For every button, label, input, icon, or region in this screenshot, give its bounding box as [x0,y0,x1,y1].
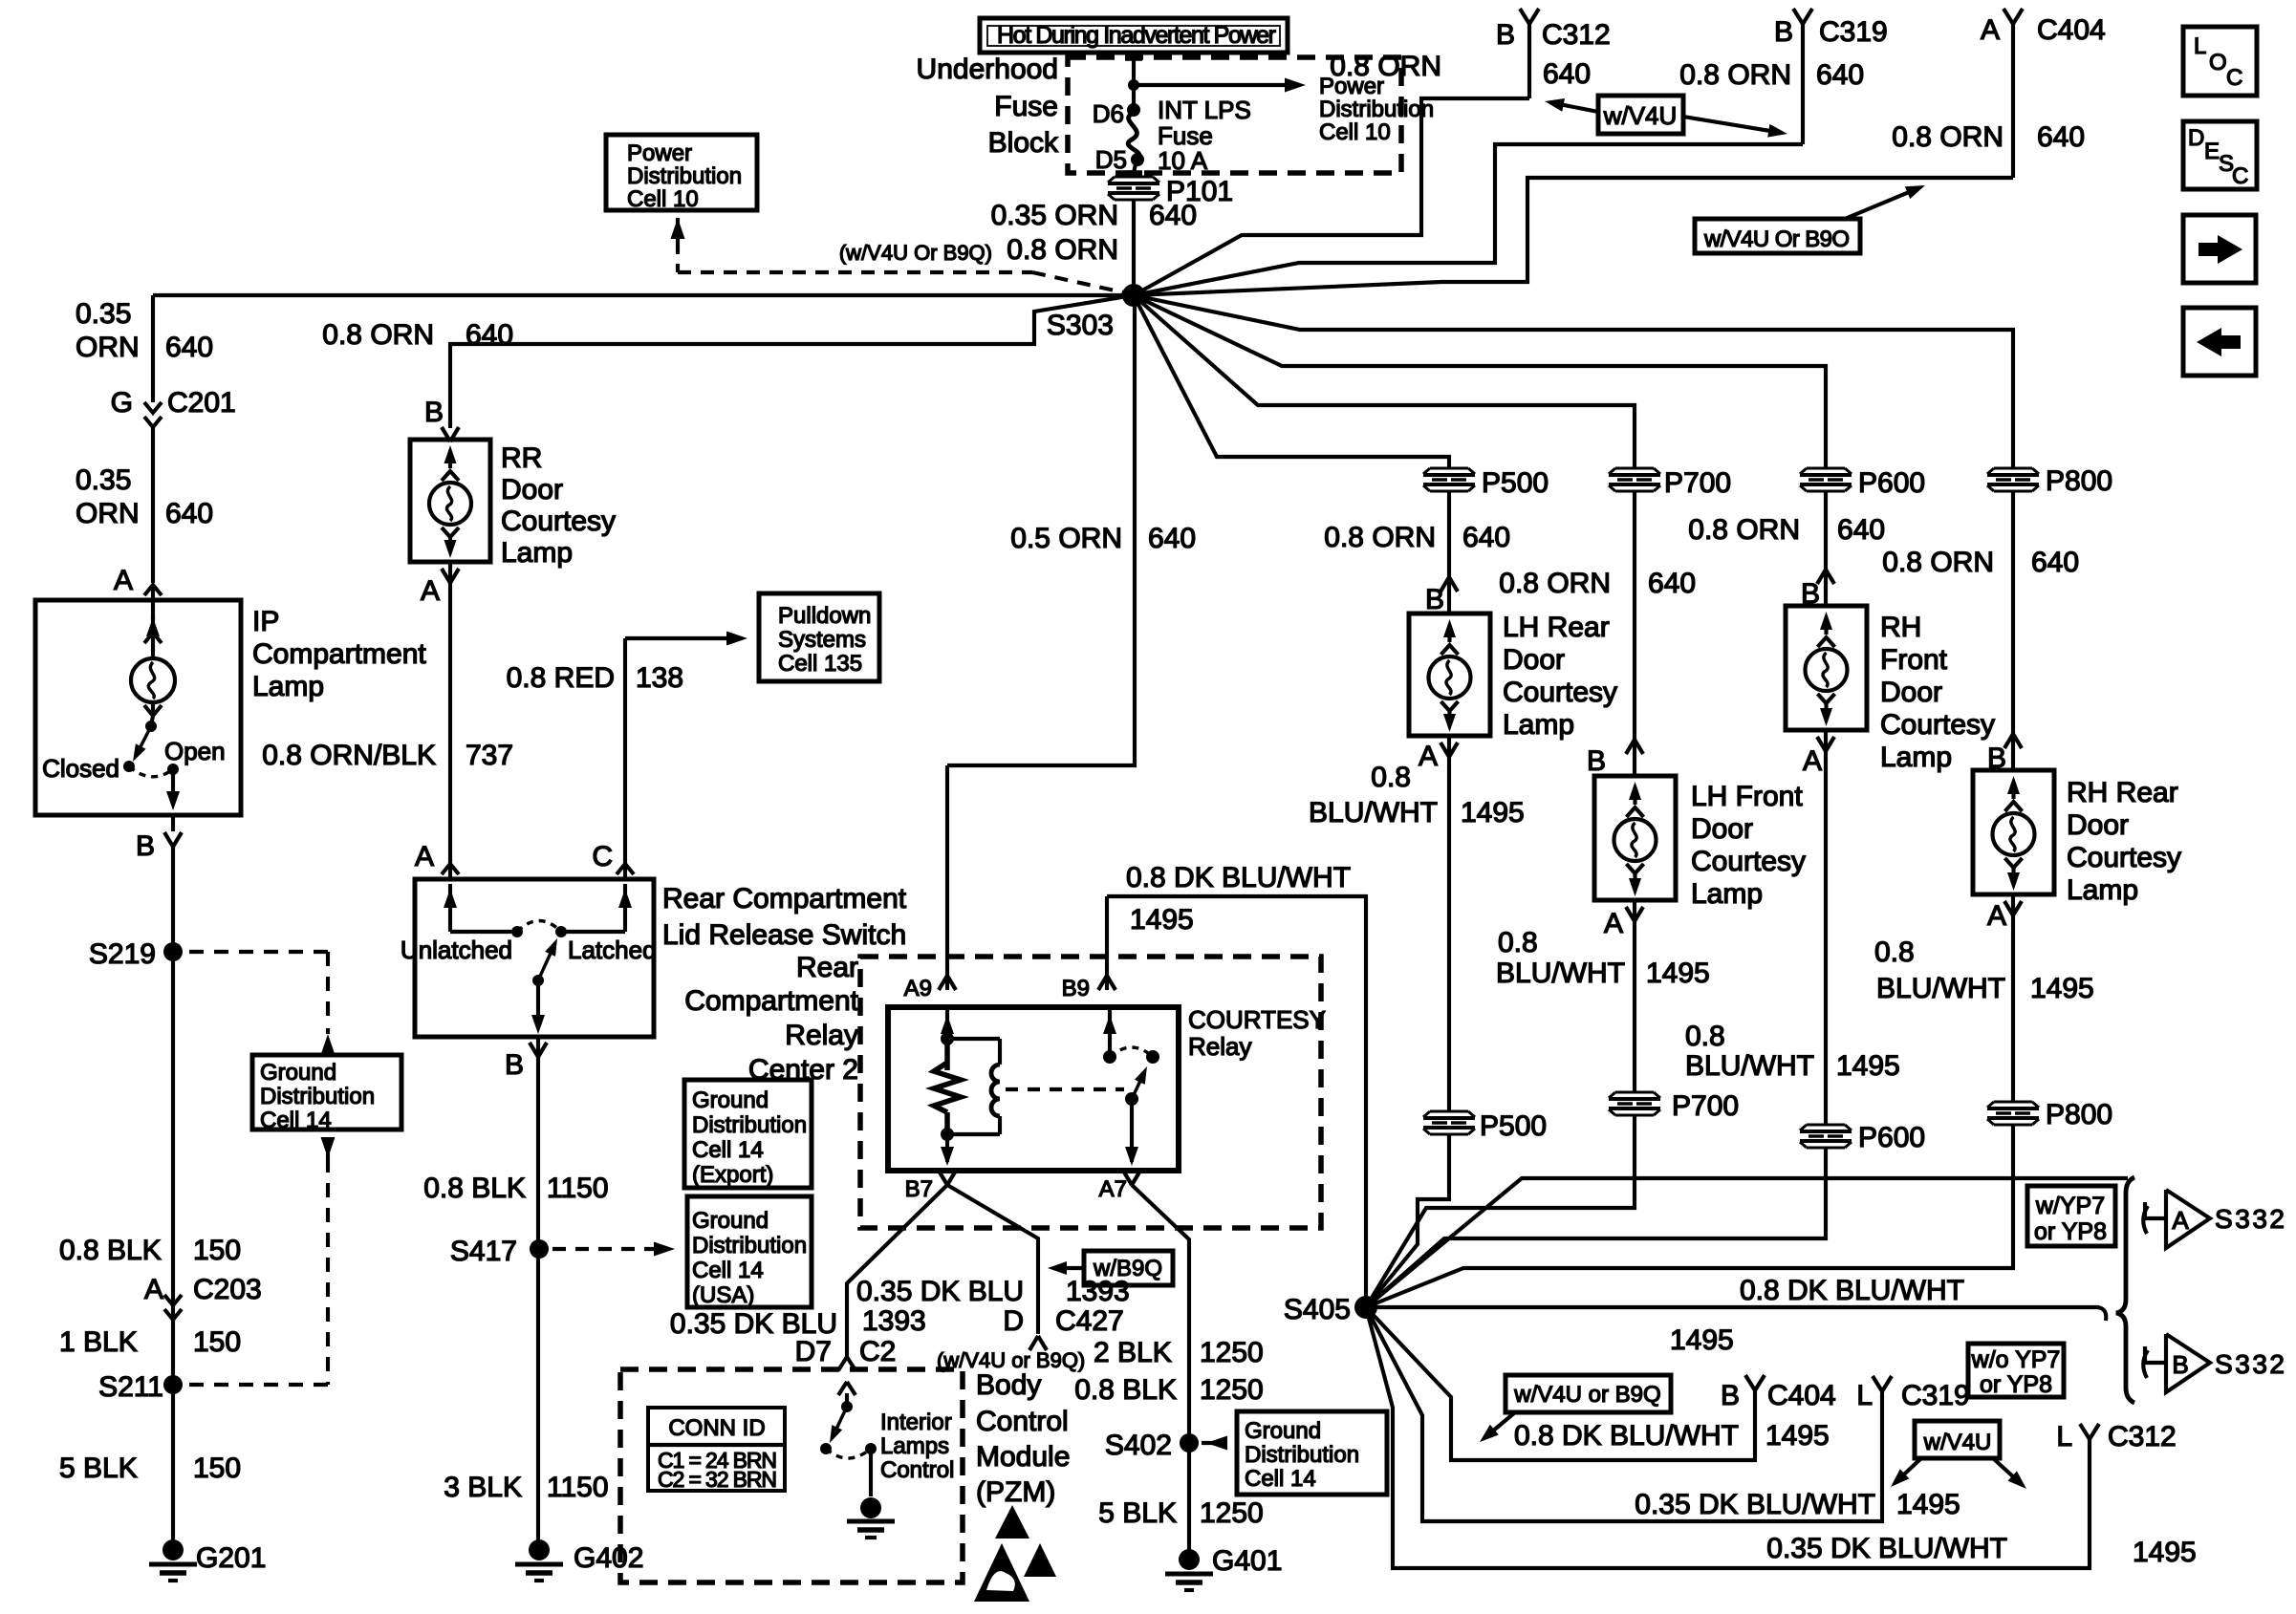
svg-text:G402: G402 [574,1542,643,1574]
svg-text:0.35 DK BLU/WHT: 0.35 DK BLU/WHT [1635,1489,1875,1520]
svg-text:Door: Door [2067,809,2129,841]
svg-text:Unlatched: Unlatched [401,936,512,964]
svg-text:Compartment: Compartment [684,985,858,1017]
svg-text:Latched: Latched [568,936,657,964]
svg-text:0.8 DK BLU/WHT: 0.8 DK BLU/WHT [1740,1275,1964,1306]
svg-text:Lamp: Lamp [2067,874,2138,906]
svg-text:Lamps: Lamps [880,1433,949,1459]
svg-text:Cell 14: Cell 14 [692,1137,764,1163]
svg-text:0.8 ORN: 0.8 ORN [1007,234,1118,266]
svg-text:O: O [2209,50,2227,75]
svg-text:640: 640 [466,319,513,351]
svg-text:E: E [2204,139,2220,164]
svg-text:0.35 DK BLU/WHT: 0.35 DK BLU/WHT [1766,1533,2007,1564]
svg-text:A: A [421,575,440,607]
svg-text:S402: S402 [1105,1430,1172,1461]
svg-text:Relay: Relay [785,1020,858,1051]
svg-text:S219: S219 [89,938,156,970]
svg-text:0.8 RED: 0.8 RED [507,662,615,694]
svg-text:0.5 ORN: 0.5 ORN [1010,523,1122,554]
svg-text:Pulldown: Pulldown [778,603,871,629]
svg-text:640: 640 [1149,200,1197,231]
svg-text:C2: C2 [859,1336,896,1367]
svg-text:G201: G201 [196,1542,266,1574]
svg-text:Relay: Relay [1188,1032,1251,1061]
svg-text:1150: 1150 [547,1472,609,1503]
svg-text:0.8 ORN: 0.8 ORN [322,319,434,351]
svg-text:Cell 14: Cell 14 [260,1108,332,1133]
svg-text:S303: S303 [1047,310,1114,341]
svg-text:B7: B7 [905,1176,933,1202]
svg-text:Distribution: Distribution [260,1084,375,1109]
svg-text:640: 640 [1816,59,1864,91]
svg-text:w/V4U: w/V4U [1923,1430,1992,1455]
svg-text:A: A [1981,14,2000,46]
svg-text:Module: Module [976,1441,1070,1473]
svg-text:B: B [1987,742,2006,774]
svg-text:S332: S332 [2215,1349,2285,1379]
svg-text:1250: 1250 [1200,1497,1264,1529]
svg-text:A: A [144,1274,163,1305]
svg-text:(USA): (USA) [692,1282,754,1308]
svg-text:1150: 1150 [547,1173,609,1204]
svg-text:A: A [2172,1206,2189,1235]
svg-text:0.8 ORN: 0.8 ORN [1882,547,1994,578]
svg-text:Lid Release Switch: Lid Release Switch [662,919,906,951]
svg-text:C404: C404 [1767,1380,1836,1411]
svg-text:A9: A9 [904,976,932,1001]
svg-text:INT LPS: INT LPS [1158,96,1251,124]
svg-text:640: 640 [1837,514,1885,546]
svg-text:ORN: ORN [76,498,140,529]
svg-text:0.8: 0.8 [1371,762,1411,793]
svg-text:S332: S332 [2215,1204,2285,1234]
svg-text:Cell 10: Cell 10 [627,186,699,212]
svg-text:(PZM): (PZM) [976,1476,1055,1508]
svg-text:Courtesy: Courtesy [501,506,616,537]
svg-text:COURTESY: COURTESY [1188,1005,1326,1034]
svg-text:RR: RR [501,442,542,474]
svg-text:Distribution: Distribution [1245,1442,1359,1468]
svg-text:D6: D6 [1093,99,1124,128]
svg-text:150: 150 [193,1453,241,1484]
svg-text:640: 640 [165,498,213,529]
svg-text:Door: Door [1503,644,1565,676]
svg-text:L: L [2056,1421,2072,1453]
svg-text:Front: Front [1880,644,1948,676]
svg-text:Distribution: Distribution [692,1233,807,1259]
svg-text:1393: 1393 [862,1305,926,1337]
svg-text:Cell 14: Cell 14 [1245,1466,1316,1492]
svg-text:A7: A7 [1099,1176,1127,1202]
svg-text:Door: Door [1880,677,1942,708]
svg-text:C404: C404 [2037,14,2106,46]
svg-text:1250: 1250 [1200,1374,1264,1406]
svg-text:L: L [1856,1380,1873,1411]
svg-text:C: C [2226,65,2242,91]
svg-text:0.8 ORN: 0.8 ORN [1688,514,1800,546]
svg-text:0.8 BLK: 0.8 BLK [59,1235,162,1266]
svg-text:P700: P700 [1664,467,1731,499]
svg-text:Door: Door [1691,813,1753,845]
svg-text:Compartment: Compartment [252,638,426,670]
svg-text:B: B [1496,19,1515,51]
svg-text:1495: 1495 [1461,797,1525,829]
svg-text:Cell 10: Cell 10 [1319,119,1391,145]
svg-text:Hot During Inadvertent Power: Hot During Inadvertent Power [997,22,1276,49]
svg-text:0.8 BLK: 0.8 BLK [423,1173,526,1204]
svg-text:640: 640 [1148,523,1196,554]
svg-text:B: B [1801,578,1820,610]
svg-text:Cell 14: Cell 14 [692,1258,764,1283]
svg-text:ORN: ORN [76,332,140,363]
svg-text:Ground: Ground [1245,1418,1321,1444]
svg-text:B: B [1587,745,1606,777]
svg-text:L: L [2194,33,2206,59]
svg-text:B: B [1425,584,1444,615]
svg-text:w/V4U Or B9O: w/V4U Or B9O [1703,226,1850,252]
svg-text:1495: 1495 [1896,1489,1960,1520]
svg-text:RH: RH [1880,612,1921,643]
svg-text:or YP8: or YP8 [2034,1218,2107,1245]
svg-text:150: 150 [193,1326,241,1358]
svg-text:LH Rear: LH Rear [1503,612,1610,643]
svg-text:Rear: Rear [796,952,858,983]
svg-text:0.8 ORN: 0.8 ORN [1499,568,1611,599]
svg-text:Closed: Closed [42,754,119,783]
svg-text:BLU/WHT: BLU/WHT [1309,797,1438,829]
svg-text:0.35 ORN: 0.35 ORN [991,200,1118,231]
svg-text:(Export): (Export) [692,1162,773,1188]
svg-text:BLU/WHT: BLU/WHT [1876,973,2005,1004]
svg-text:D: D [1003,1305,1024,1337]
svg-text:Courtesy: Courtesy [1691,846,1806,877]
svg-text:A: A [1987,900,2006,932]
svg-text:IP: IP [252,606,279,637]
svg-text:w/V4U or B9Q: w/V4U or B9Q [1513,1382,1660,1408]
svg-text:BLU/WHT: BLU/WHT [1685,1050,1814,1082]
svg-text:D5: D5 [1095,145,1127,174]
svg-text:640: 640 [1543,58,1591,90]
svg-text:3 BLK: 3 BLK [444,1472,522,1503]
svg-text:Fuse: Fuse [994,91,1058,122]
svg-text:0.8 ORN: 0.8 ORN [1330,51,1441,82]
svg-text:B: B [136,830,155,862]
svg-text:0.35: 0.35 [76,298,131,330]
svg-text:640: 640 [2037,121,2085,153]
svg-text:0.8 ORN: 0.8 ORN [1324,522,1436,553]
svg-text:0.8: 0.8 [1498,927,1538,958]
svg-text:A: A [1604,908,1623,939]
svg-text:0.8 DK BLU/WHT: 0.8 DK BLU/WHT [1126,862,1351,893]
svg-text:S211: S211 [98,1371,163,1403]
svg-text:0.8: 0.8 [1874,936,1915,968]
svg-text:P600: P600 [1858,467,1925,499]
svg-text:P800: P800 [2046,1099,2112,1130]
svg-text:640: 640 [1462,522,1510,553]
svg-text:C319: C319 [1819,16,1888,48]
svg-text:640: 640 [1648,568,1696,599]
svg-text:A: A [1803,745,1822,777]
svg-text:737: 737 [466,740,513,771]
svg-text:D7: D7 [795,1336,832,1367]
svg-text:150: 150 [193,1235,241,1266]
svg-text:C427: C427 [1055,1305,1124,1337]
svg-text:B: B [1774,16,1793,48]
svg-text:Ground: Ground [692,1087,769,1113]
svg-text:Cell 135: Cell 135 [778,651,862,677]
svg-text:CONN ID: CONN ID [668,1415,765,1441]
svg-text:P800: P800 [2046,465,2112,497]
svg-text:Distribution: Distribution [1319,97,1434,122]
svg-text:0.8 DK BLU/WHT: 0.8 DK BLU/WHT [1514,1420,1739,1452]
svg-text:0.35: 0.35 [76,464,131,496]
svg-text:P500: P500 [1480,1110,1547,1142]
svg-text:w/B9Q: w/B9Q [1093,1256,1162,1281]
svg-text:C312: C312 [2108,1421,2177,1453]
svg-text:C319: C319 [1901,1380,1970,1411]
svg-text:Underhood: Underhood [917,54,1058,85]
svg-text:C203: C203 [193,1274,262,1305]
svg-text:G401: G401 [1212,1545,1282,1577]
svg-text:(w/V4U Or B9Q): (w/V4U Or B9Q) [839,241,992,265]
svg-text:S417: S417 [450,1236,517,1267]
svg-text:C2 = 32 BRN: C2 = 32 BRN [658,1467,777,1492]
svg-text:P500: P500 [1482,467,1549,499]
svg-text:1495: 1495 [1130,904,1194,936]
svg-text:Control: Control [880,1457,954,1483]
svg-text:Interior: Interior [880,1410,952,1435]
svg-text:RH Rear: RH Rear [2067,777,2178,808]
svg-text:Courtesy: Courtesy [2067,842,2181,873]
svg-text:Ground: Ground [260,1060,336,1086]
svg-text:Lamp: Lamp [501,537,573,569]
svg-text:Ground: Ground [692,1208,769,1234]
svg-text:Lamp: Lamp [1880,742,1952,773]
svg-text:A: A [1419,741,1438,772]
svg-text:640: 640 [2031,547,2079,578]
svg-text:w/o YP7: w/o YP7 [1971,1346,2061,1373]
svg-text:0.8 BLK: 0.8 BLK [1074,1374,1177,1406]
svg-text:Block: Block [988,127,1059,159]
svg-text:1250: 1250 [1200,1337,1264,1368]
svg-text:Distribution: Distribution [692,1112,807,1138]
svg-text:1495: 1495 [1670,1324,1734,1356]
svg-text:Body: Body [976,1369,1041,1401]
svg-text:0.8: 0.8 [1685,1021,1725,1052]
svg-text:10 A: 10 A [1158,146,1208,175]
svg-text:138: 138 [636,662,683,694]
svg-text:0.8 ORN: 0.8 ORN [1679,59,1791,91]
svg-text:C312: C312 [1542,19,1611,51]
svg-text:0.8 ORN: 0.8 ORN [1892,121,2004,153]
svg-text:Power: Power [627,140,692,166]
svg-text:B: B [1721,1380,1740,1411]
svg-text:1495: 1495 [2030,973,2094,1004]
svg-text:Door: Door [501,474,563,506]
svg-text:Systems: Systems [778,627,866,653]
svg-text:1495: 1495 [1646,958,1710,989]
svg-text:Lamp: Lamp [252,671,324,702]
svg-text:LH Front: LH Front [1691,781,1803,812]
svg-text:C201: C201 [167,387,236,419]
svg-text:2 BLK: 2 BLK [1094,1337,1172,1368]
svg-text:B: B [505,1049,524,1081]
svg-text:B: B [2172,1350,2188,1379]
svg-text:A: A [114,565,133,596]
svg-text:P700: P700 [1672,1090,1739,1122]
svg-text:BLU/WHT: BLU/WHT [1496,958,1625,989]
svg-text:w/YP7: w/YP7 [2035,1193,2105,1219]
svg-text:C: C [2232,163,2248,189]
svg-text:C: C [592,841,613,872]
svg-text:P600: P600 [1858,1122,1925,1153]
svg-text:Lamp: Lamp [1691,878,1763,910]
svg-text:640: 640 [165,332,213,363]
svg-text:0.35 DK BLU: 0.35 DK BLU [856,1276,1024,1307]
svg-text:w/V4U: w/V4U [1603,101,1678,130]
svg-text:Center 2: Center 2 [748,1054,858,1086]
svg-text:Courtesy: Courtesy [1880,709,1995,741]
svg-text:5 BLK: 5 BLK [59,1453,138,1484]
svg-text:5 BLK: 5 BLK [1098,1497,1177,1529]
svg-text:B: B [424,397,444,428]
svg-text:Control: Control [976,1406,1069,1437]
svg-text:1 BLK: 1 BLK [59,1326,138,1358]
svg-text:or YP8: or YP8 [1980,1371,2052,1398]
svg-text:1495: 1495 [1765,1420,1830,1452]
svg-text:1495: 1495 [1836,1050,1900,1082]
svg-text:S405: S405 [1284,1294,1351,1325]
svg-text:Open: Open [164,737,226,765]
svg-text:B9: B9 [1062,976,1090,1001]
svg-text:1495: 1495 [2133,1537,2197,1568]
svg-text:Distribution: Distribution [627,163,742,189]
svg-text:G: G [111,387,133,419]
svg-text:D: D [2188,125,2204,151]
svg-text:0.8 ORN/BLK: 0.8 ORN/BLK [262,740,436,771]
svg-text:Rear Compartment: Rear Compartment [662,883,907,915]
svg-text:Lamp: Lamp [1503,709,1574,741]
svg-text:A: A [415,841,434,872]
svg-text:Courtesy: Courtesy [1503,677,1617,708]
